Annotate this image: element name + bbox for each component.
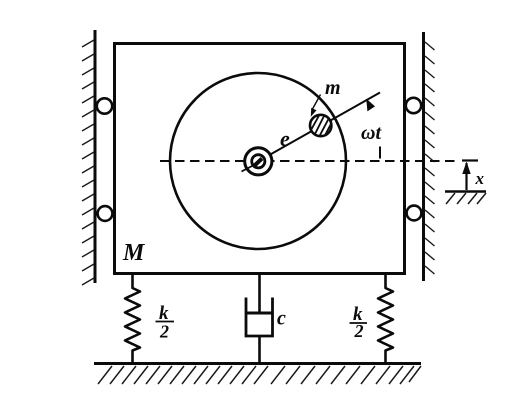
damper C rod top bbox=[258, 274, 261, 314]
hub pivot mark bbox=[254, 159, 263, 167]
roller bottom-right bbox=[407, 206, 422, 221]
x ground bar bbox=[445, 190, 486, 192]
mass M box bbox=[115, 44, 405, 274]
rotation direction arrowhead bbox=[366, 99, 375, 112]
svg-text:M: M bbox=[122, 240, 146, 266]
omega-t leader tick bbox=[379, 147, 381, 159]
damper cylinder bbox=[246, 298, 273, 337]
right wall hatching bbox=[425, 42, 435, 274]
leader from label m bbox=[313, 95, 321, 110]
spring right (k/2) bbox=[378, 274, 393, 364]
x arrowhead bbox=[462, 162, 470, 175]
eccentric mass m circle bbox=[310, 115, 331, 136]
roller top-left bbox=[97, 98, 112, 113]
dashed centerline bbox=[160, 160, 456, 162]
svg-text:2: 2 bbox=[354, 321, 364, 341]
x arrow shaft bbox=[465, 163, 467, 190]
roller bottom-left bbox=[98, 206, 113, 221]
right wall bbox=[422, 32, 425, 281]
svg-text:2: 2 bbox=[159, 322, 169, 342]
svg-text:c: c bbox=[277, 308, 286, 330]
leader arrowhead bbox=[311, 108, 317, 117]
damper rod bottom bbox=[258, 336, 261, 363]
hub inner circle bbox=[252, 155, 265, 168]
ground bbox=[94, 362, 421, 365]
left wall bbox=[94, 30, 97, 283]
roller top-right bbox=[406, 98, 421, 113]
damper piston plate bbox=[247, 312, 273, 315]
eccentric mass hatching bbox=[311, 112, 332, 139]
svg-text:x: x bbox=[475, 169, 485, 188]
ground hatching bbox=[98, 366, 421, 384]
left wall hatching bbox=[82, 40, 94, 285]
svg-text:e: e bbox=[280, 126, 290, 151]
spring left (k/2) bbox=[125, 274, 140, 364]
hub tick lower-left bbox=[242, 166, 254, 172]
x ground hatching bbox=[446, 193, 486, 204]
flywheel circle bbox=[170, 73, 346, 249]
svg-text:m: m bbox=[325, 77, 341, 99]
svg-text:ωt: ωt bbox=[361, 122, 382, 144]
x reference top bar bbox=[462, 159, 478, 161]
crank radial line bbox=[257, 93, 380, 163]
hub outer circle bbox=[245, 148, 272, 175]
